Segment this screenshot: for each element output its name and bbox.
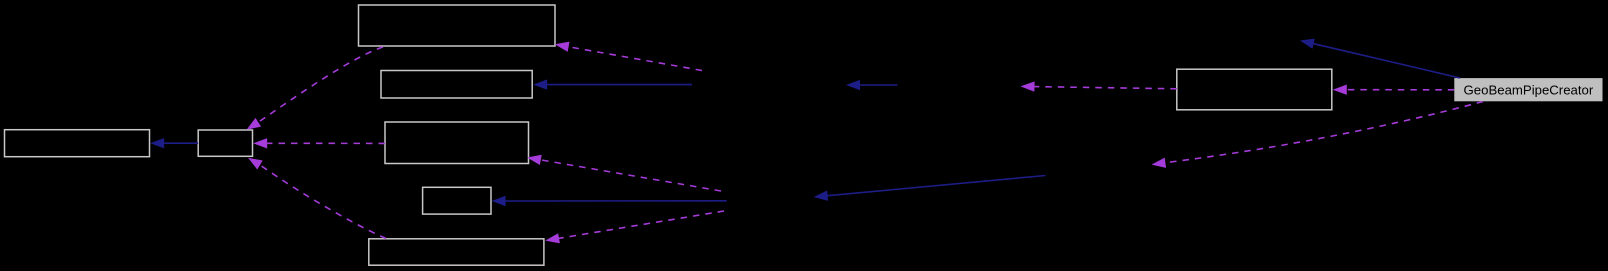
- magenta dashed curve: GeoBeamPipeCreator to hidden node N4: [1152, 102, 1484, 168]
- magenta dashed edge: hidden node N3 to bottom box corner: [545, 211, 724, 243]
- magenta dashed edge: right box to hidden node N2: [1021, 81, 1177, 91]
- blue solid edge: hidden node N3 to small-center box: [492, 196, 727, 206]
- magenta dashed edge: hidden node N1 to top-center box corner: [555, 42, 702, 71]
- magenta dashed edge: hidden node N3 to third-row box corner: [527, 155, 721, 191]
- magenta dashed edge: GeoBeamPipeCreator to right box: [1333, 85, 1455, 95]
- node box top-center: [359, 5, 556, 46]
- magenta dashed curve: bottom box to small-left hub: [248, 158, 386, 239]
- node box far-left: [5, 130, 150, 157]
- blue solid edge: hidden node N2 to hidden node N1: [846, 80, 897, 90]
- node box small-left hub: [198, 130, 252, 156]
- magenta dashed edge: third-row box to small-left hub: [253, 138, 385, 148]
- blue solid edge: GeoBeamPipeCreator up to hidden node: [1300, 39, 1460, 78]
- blue solid edge: hidden node N1 to second-row box: [533, 79, 692, 89]
- blue solid edge: small-left hub to far-left box: [150, 138, 198, 148]
- node box right: [1177, 69, 1332, 110]
- blue solid edge: hidden node N4 to hidden node N3: [814, 176, 1046, 201]
- node box small-center: [423, 187, 491, 214]
- node box bottom: [369, 239, 544, 265]
- node box third-row: [385, 122, 529, 164]
- node GeoBeamPipeCreator (highlighted): [1454, 78, 1602, 101]
- svg-text:GeoBeamPipeCreator: GeoBeamPipeCreator: [1464, 83, 1594, 98]
- magenta dashed curve: top-center box to small-left hub: [247, 47, 384, 130]
- node box second-row: [381, 71, 532, 99]
